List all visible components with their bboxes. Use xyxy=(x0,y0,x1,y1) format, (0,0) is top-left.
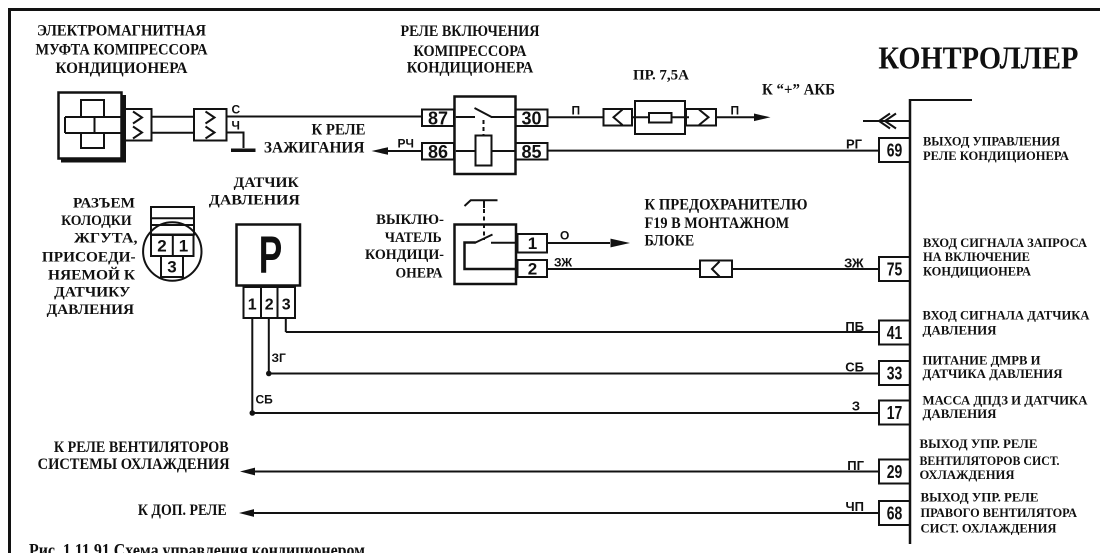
svg-text:БЛОКЕ: БЛОКЕ xyxy=(645,233,695,250)
svg-text:ВЫХОД УПР. РЕЛЕ: ВЫХОД УПР. РЕЛЕ xyxy=(921,490,1039,505)
svg-text:ЖГУТА,: ЖГУТА, xyxy=(74,231,138,247)
svg-text:ЧАТЕЛЬ: ЧАТЕЛЬ xyxy=(385,230,442,246)
svg-text:68: 68 xyxy=(887,503,903,524)
svg-text:ПР. 7,5А: ПР. 7,5А xyxy=(633,67,689,83)
svg-text:К ПРЕДОХРАНИТЕЛЮ: К ПРЕДОХРАНИТЕЛЮ xyxy=(645,196,808,213)
svg-text:1: 1 xyxy=(248,297,257,314)
svg-text:ДАВЛЕНИЯ: ДАВЛЕНИЯ xyxy=(923,322,998,337)
svg-text:СИСТ. ОХЛАЖДЕНИЯ: СИСТ. ОХЛАЖДЕНИЯ xyxy=(921,520,1058,535)
svg-text:РЕЛЕ ВКЛЮЧЕНИЯ: РЕЛЕ ВКЛЮЧЕНИЯ xyxy=(401,23,540,40)
svg-text:ОХЛАЖДЕНИЯ: ОХЛАЖДЕНИЯ xyxy=(920,467,1016,482)
svg-text:17: 17 xyxy=(887,402,903,423)
svg-text:85: 85 xyxy=(521,142,541,162)
svg-text:С: С xyxy=(232,103,241,117)
svg-text:СИСТЕМЫ ОХЛАЖДЕНИЯ: СИСТЕМЫ ОХЛАЖДЕНИЯ xyxy=(38,456,230,473)
svg-text:П: П xyxy=(731,104,740,118)
svg-text:ЗЖ: ЗЖ xyxy=(844,256,864,271)
svg-text:РАЗЪЕМ: РАЗЪЕМ xyxy=(73,196,135,212)
svg-text:ПРИСОЕДИ-: ПРИСОЕДИ- xyxy=(42,250,136,266)
svg-text:75: 75 xyxy=(887,259,903,280)
svg-text:ВЫХОД УПР. РЕЛЕ: ВЫХОД УПР. РЕЛЕ xyxy=(920,436,1038,451)
svg-text:87: 87 xyxy=(428,108,448,128)
svg-text:ОНЕРА: ОНЕРА xyxy=(396,265,443,281)
svg-text:РЕЛЕ КОНДИЦИОНЕРА: РЕЛЕ КОНДИЦИОНЕРА xyxy=(923,148,1070,163)
svg-text:ЭЛЕКТРОМАГНИТНАЯ: ЭЛЕКТРОМАГНИТНАЯ xyxy=(37,23,206,40)
svg-text:Р: Р xyxy=(259,226,283,285)
svg-text:3: 3 xyxy=(282,297,291,314)
svg-text:ВЫХОД УПРАВЛЕНИЯ: ВЫХОД УПРАВЛЕНИЯ xyxy=(923,133,1061,148)
svg-text:КОНДИЦИОНЕРА: КОНДИЦИОНЕРА xyxy=(407,60,534,77)
svg-text:ВХОД СИГНАЛА ЗАПРОСА: ВХОД СИГНАЛА ЗАПРОСА xyxy=(923,235,1088,250)
svg-text:П: П xyxy=(572,104,581,118)
svg-text:ВЕНТИЛЯТОРОВ СИСТ.: ВЕНТИЛЯТОРОВ СИСТ. xyxy=(920,453,1060,468)
svg-text:ПРАВОГО ВЕНТИЛЯТОРА: ПРАВОГО ВЕНТИЛЯТОРА xyxy=(921,505,1078,520)
svg-text:К РЕЛЕ: К РЕЛЕ xyxy=(312,121,366,138)
svg-text:ВЫКЛЮ-: ВЫКЛЮ- xyxy=(376,212,444,228)
svg-text:К РЕЛЕ ВЕНТИЛЯТОРОВ: К РЕЛЕ ВЕНТИЛЯТОРОВ xyxy=(54,439,229,456)
svg-text:ВХОД СИГНАЛА ДАТЧИКА: ВХОД СИГНАЛА ДАТЧИКА xyxy=(923,307,1091,322)
svg-text:СБ: СБ xyxy=(845,360,864,375)
svg-text:КОНТРОЛЛЕР: КОНТРОЛЛЕР xyxy=(878,40,1078,76)
svg-text:ДАВЛЕНИЯ: ДАВЛЕНИЯ xyxy=(47,302,135,318)
svg-text:29: 29 xyxy=(887,461,903,482)
svg-text:ДАВЛЕНИЯ: ДАВЛЕНИЯ xyxy=(923,406,998,421)
svg-text:ПГ: ПГ xyxy=(847,458,864,473)
svg-text:86: 86 xyxy=(428,142,448,162)
svg-text:РЧ: РЧ xyxy=(398,137,414,151)
svg-text:О: О xyxy=(560,229,569,243)
svg-text:КОНДИЦИОНЕРА: КОНДИЦИОНЕРА xyxy=(56,60,188,77)
svg-text:Ч: Ч xyxy=(232,119,240,133)
svg-text:3: 3 xyxy=(167,258,176,277)
svg-text:41: 41 xyxy=(887,322,903,343)
svg-text:2: 2 xyxy=(265,297,274,314)
svg-text:Рис. 1.11.91 Схема управления: Рис. 1.11.91 Схема управления кондиционе… xyxy=(29,541,365,553)
svg-text:З: З xyxy=(852,399,860,414)
svg-text:МУФТА КОМПРЕССОРА: МУФТА КОМПРЕССОРА xyxy=(36,42,208,59)
svg-text:КОНДИЦИОНЕРА: КОНДИЦИОНЕРА xyxy=(923,264,1032,279)
svg-text:2: 2 xyxy=(528,260,537,279)
svg-text:69: 69 xyxy=(887,140,903,161)
svg-text:2: 2 xyxy=(157,237,166,256)
svg-text:РГ: РГ xyxy=(846,137,863,152)
svg-text:ДАВЛЕНИЯ: ДАВЛЕНИЯ xyxy=(209,193,300,209)
svg-text:СБ: СБ xyxy=(256,393,274,407)
svg-text:КОЛОДКИ: КОЛОДКИ xyxy=(61,213,132,229)
svg-text:ДАТЧИК: ДАТЧИК xyxy=(234,175,299,191)
svg-text:1: 1 xyxy=(528,234,537,253)
svg-text:ЗАЖИГАНИЯ: ЗАЖИГАНИЯ xyxy=(264,140,365,157)
svg-text:ДАТЧИКА ДАВЛЕНИЯ: ДАТЧИКА ДАВЛЕНИЯ xyxy=(923,366,1064,381)
svg-text:К ДОП. РЕЛЕ: К ДОП. РЕЛЕ xyxy=(138,502,227,519)
svg-text:КОНДИЦИ-: КОНДИЦИ- xyxy=(365,247,444,263)
svg-text:F19 В МОНТАЖНОМ: F19 В МОНТАЖНОМ xyxy=(645,215,790,232)
svg-text:ПБ: ПБ xyxy=(845,319,864,334)
svg-text:ДАТЧИКУ: ДАТЧИКУ xyxy=(54,285,130,301)
svg-text:ЗЖ: ЗЖ xyxy=(554,256,572,270)
svg-text:КОМПРЕССОРА: КОМПРЕССОРА xyxy=(414,43,527,60)
svg-text:1: 1 xyxy=(179,237,188,256)
svg-text:30: 30 xyxy=(521,108,541,128)
svg-text:ЧП: ЧП xyxy=(846,499,864,514)
svg-text:НА ВКЛЮЧЕНИЕ: НА ВКЛЮЧЕНИЕ xyxy=(923,249,1030,264)
svg-text:НЯЕМОЙ К: НЯЕМОЙ К xyxy=(48,267,135,284)
svg-text:К “+” АКБ: К “+” АКБ xyxy=(762,82,835,99)
svg-text:33: 33 xyxy=(887,363,903,384)
svg-text:ЗГ: ЗГ xyxy=(272,351,287,365)
